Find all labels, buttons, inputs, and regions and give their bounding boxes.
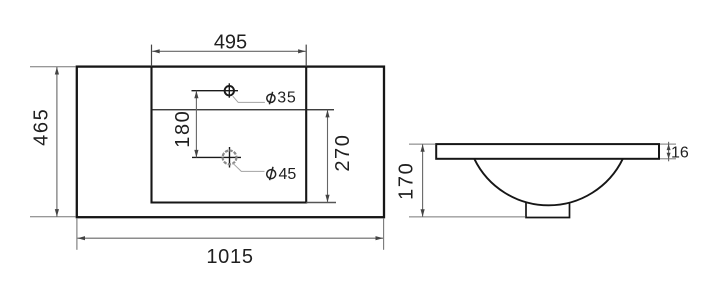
svg-text:16: 16 [671, 144, 689, 161]
svg-text:1015: 1015 [206, 246, 253, 268]
svg-text:35: 35 [277, 90, 296, 107]
svg-text:45: 45 [279, 166, 297, 183]
svg-text:180: 180 [172, 110, 194, 148]
svg-text:495: 495 [214, 32, 247, 54]
svg-text:465: 465 [30, 108, 52, 146]
svg-text:270: 270 [332, 134, 354, 172]
svg-text:170: 170 [396, 162, 418, 200]
